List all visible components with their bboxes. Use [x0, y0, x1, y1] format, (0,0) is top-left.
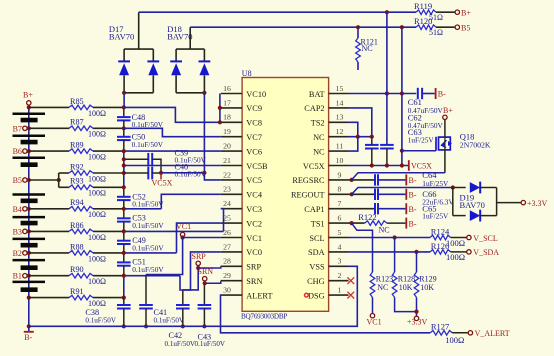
- wire D18 right cathode lead: [203, 49, 205, 61]
- pin 18 VC8 lead: [221, 121, 242, 123]
- junction B1 on battery column: [27, 274, 31, 278]
- svg-text:VC5X: VC5X: [152, 179, 173, 188]
- pin 22 VC5 lead: [221, 179, 242, 181]
- wire SCL row: [349, 237, 431, 239]
- svg-text:1uF/25V: 1uF/25V: [408, 136, 435, 145]
- wire VC1 circle stub: [182, 236, 184, 239]
- wire to R93: [59, 186, 69, 188]
- battery cell 6: [13, 238, 46, 241]
- svg-text:VC0: VC0: [246, 248, 262, 257]
- wire B5 split vertical: [58, 173, 60, 187]
- wire B3 jog to VC3: [221, 209, 224, 232]
- resistor R123: [370, 272, 375, 297]
- junction B5 rail R121: [356, 25, 360, 29]
- junction cap column R93 row: [122, 185, 126, 189]
- svg-text:0.1uF/50V: 0.1uF/50V: [132, 200, 164, 209]
- wire C49 bottom pigtail: [123, 244, 125, 253]
- terminal B4 circle: [23, 207, 27, 211]
- wire C38 bottom pigtail: [123, 309, 125, 327]
- wire R128 bottom jog: [395, 297, 417, 311]
- resistor R122: [365, 221, 387, 226]
- wire VC5X row: [349, 165, 409, 167]
- wire D18 anode join: [176, 92, 204, 94]
- svg-text:4: 4: [338, 242, 342, 251]
- wire SRN circle stub: [204, 281, 206, 283]
- svg-text:TS2: TS2: [311, 119, 325, 128]
- terminal B3 circle: [23, 229, 27, 233]
- svg-text:R122: R122: [358, 212, 376, 222]
- wire R126 to V_SDA: [451, 251, 467, 253]
- junction REGSRC diag: [350, 178, 354, 182]
- terminal SRN circle: [203, 277, 207, 281]
- wire D17 cathode bar top: [124, 48, 153, 50]
- resistor R129: [414, 272, 419, 297]
- svg-text:2: 2: [338, 271, 342, 280]
- wire B5 to split: [29, 179, 59, 181]
- svg-text:5: 5: [338, 228, 342, 237]
- terminal B+ circle top right: [455, 10, 459, 14]
- wire B- rail to VSS pin3: [29, 266, 358, 326]
- wire B3 to R86 row: [29, 230, 69, 232]
- resistor R120: [416, 25, 436, 30]
- junction cap column C50 bottom: [122, 149, 126, 153]
- svg-text:VSS: VSS: [309, 263, 325, 272]
- pin 28 SRP lead: [221, 265, 242, 267]
- pin 1 DSG lead: [329, 294, 349, 296]
- wire R91 output: [93, 297, 124, 299]
- svg-text:V_SCL: V_SCL: [473, 234, 498, 243]
- battery cell 7: [13, 259, 46, 262]
- battery cell 2: [13, 135, 46, 138]
- wire D19 cathode join: [496, 188, 498, 216]
- wire R129 to +3.3V: [416, 297, 418, 316]
- svg-text:0.1uF/50V: 0.1uF/50V: [132, 140, 164, 149]
- wire B1 to R90 row: [29, 275, 69, 277]
- junction VC5 riser: [202, 171, 206, 175]
- capacitor C50: [117, 136, 131, 138]
- svg-text:3: 3: [338, 257, 342, 266]
- wire R121 bottom stub: [357, 62, 359, 70]
- svg-text:REGSRC: REGSRC: [292, 176, 325, 185]
- svg-text:10K: 10K: [420, 283, 434, 292]
- junction C42 on B- rail: [181, 324, 185, 328]
- svg-text:2N7002K: 2N7002K: [460, 141, 491, 150]
- wire ALERT route to R127: [221, 295, 431, 333]
- wire VC1 to pin26: [183, 237, 221, 239]
- svg-text:C42: C42: [169, 331, 183, 340]
- wire R124 to V_SCL: [451, 237, 467, 239]
- battery cell 4: [13, 193, 46, 196]
- capacitor C41: [139, 304, 153, 306]
- junction BAT riser B+: [385, 91, 389, 95]
- svg-text:1uF/25V: 1uF/25V: [422, 179, 449, 188]
- resistor R93: [69, 185, 93, 190]
- wire to R92: [59, 172, 69, 174]
- wire NC pin11 jog: [349, 137, 358, 151]
- svg-text:B+: B+: [23, 91, 33, 100]
- junction pin12 TS2: [356, 135, 360, 139]
- svg-text:0.1uF/50V: 0.1uF/50V: [132, 120, 164, 129]
- svg-text:NC: NC: [313, 147, 325, 156]
- svg-text:+3.3V: +3.3V: [407, 318, 428, 327]
- wire R121 top lead: [357, 27, 359, 38]
- capacitor C63: [365, 144, 379, 146]
- svg-text:CAP2: CAP2: [304, 104, 324, 113]
- terminal VC1 circle upper: [180, 232, 184, 236]
- wire Q18 channel through: [444, 137, 446, 150]
- svg-text:R124: R124: [431, 226, 450, 236]
- wire D19 lower branch down: [452, 188, 454, 216]
- wire R87 output: [93, 127, 124, 129]
- wire R89 net continue: [124, 150, 221, 152]
- wire C40 left: [124, 172, 149, 174]
- junction cap column C48 top: [122, 105, 126, 109]
- pin 29 SRN lead: [221, 280, 242, 282]
- wire B5 top rail: [190, 26, 416, 28]
- svg-text:R120: R120: [414, 16, 432, 26]
- capacitor C42: [176, 304, 190, 306]
- wire D17 right cathode lead: [152, 49, 154, 61]
- wire C53 bottom pigtail: [123, 222, 125, 232]
- capacitor C53: [117, 217, 131, 219]
- net label VC5X right: [408, 160, 410, 171]
- junction VC5X C63: [370, 163, 374, 167]
- wire R88 net continue: [124, 252, 177, 254]
- wire C40 right: [152, 172, 161, 174]
- svg-text:8: 8: [338, 185, 342, 194]
- wire C64 to bracket: [378, 179, 405, 181]
- wire cap column R92-R93: [123, 173, 125, 187]
- pin 17 VC9 lead: [221, 107, 242, 109]
- diode D19 upper half: [470, 182, 480, 193]
- pin 24 VC3 lead: [221, 208, 242, 210]
- wire VC1 down to C41: [146, 238, 183, 275]
- svg-text:B-: B-: [409, 219, 417, 228]
- wire cap column B1 to R91 row: [123, 276, 125, 298]
- svg-text:30: 30: [223, 286, 231, 295]
- svg-text:13: 13: [336, 113, 344, 122]
- junction VC5X node: [159, 171, 163, 175]
- wire SRP to pin28: [198, 266, 221, 268]
- wire VC5 riser from D18: [203, 93, 205, 173]
- svg-text:0.1uF/50V: 0.1uF/50V: [195, 340, 226, 348]
- junction cap column C52/C53: [122, 207, 126, 211]
- diode D18 left half: [170, 60, 182, 62]
- svg-text:10: 10: [336, 156, 344, 165]
- svg-text:21: 21: [223, 156, 231, 165]
- terminal +3.3V circle lower: [414, 316, 418, 320]
- wire C43 top pigtail: [203, 283, 205, 305]
- wire R90 output: [93, 275, 124, 277]
- junction C38 on B- rail: [122, 324, 126, 328]
- svg-text:9: 9: [338, 170, 342, 179]
- wire C52 bottom pigtail: [123, 200, 125, 209]
- power symbol B- row9: [405, 174, 407, 185]
- wire B2 jog to VC2: [177, 223, 221, 253]
- junction B+ / R85 row: [27, 105, 31, 109]
- junction VC5X riser: [400, 163, 404, 167]
- wire R123 to VC1: [372, 297, 374, 313]
- junction SRP: [196, 266, 200, 270]
- svg-text:R126: R126: [431, 241, 449, 251]
- terminal B5 circle: [23, 178, 27, 182]
- wire C41 top pigtail: [145, 275, 147, 306]
- junction B2 on battery column: [27, 251, 31, 255]
- resistor R126: [430, 250, 451, 255]
- wire CAP2 to C63: [349, 108, 372, 137]
- svg-text:BAV70: BAV70: [167, 31, 192, 41]
- junction TS1 diag: [350, 221, 354, 225]
- resistor R89: [69, 149, 93, 154]
- terminal B1 circle: [23, 274, 27, 278]
- wire D18 left anode lead: [175, 75, 177, 93]
- net label VC5X stub: [160, 173, 162, 180]
- wire C53 top pigtail: [123, 209, 125, 219]
- wire C50 bottom pigtail: [123, 140, 125, 151]
- battery cell 3: [13, 156, 46, 159]
- capacitor C64: [374, 174, 376, 185]
- svg-text:100Ω: 100Ω: [445, 335, 464, 345]
- resistor R87: [69, 126, 93, 131]
- pin 25 VC2 lead: [221, 222, 242, 224]
- svg-text:REGOUT: REGOUT: [291, 191, 325, 200]
- svg-text:51Ω: 51Ω: [429, 28, 443, 37]
- svg-text:R93: R93: [70, 177, 84, 186]
- wire D18 stem: [189, 27, 191, 49]
- junction D19 input: [451, 185, 455, 189]
- resistor R119: [416, 10, 436, 15]
- svg-text:SRP: SRP: [246, 263, 261, 272]
- svg-text:7: 7: [338, 199, 342, 208]
- wire TS1 to R123: [352, 223, 373, 272]
- svg-text:100Ω: 100Ω: [88, 130, 106, 139]
- svg-text:1uF/25V: 1uF/25V: [422, 212, 449, 221]
- svg-text:VC1: VC1: [246, 234, 262, 243]
- pin 4 SDA lead: [329, 251, 349, 253]
- svg-text:VC1: VC1: [367, 317, 382, 326]
- junction riser pin17: [218, 106, 222, 110]
- wire R127 to V_ALERT: [452, 332, 468, 334]
- terminal B+ circle at Q18: [443, 115, 447, 119]
- power symbol B- TS1: [405, 218, 407, 229]
- wire D17 left cathode lead: [123, 49, 125, 61]
- terminal B5 circle top right: [455, 25, 459, 29]
- wire REGSRC row: [349, 179, 375, 181]
- svg-text:VC5: VC5: [246, 176, 262, 185]
- capacitor C65: [374, 203, 376, 214]
- junction B3 on battery column: [27, 229, 31, 233]
- svg-text:+3.3V: +3.3V: [527, 199, 548, 208]
- wire D17 anode down to R85 row: [123, 93, 125, 108]
- svg-text:B7: B7: [13, 124, 22, 133]
- svg-text:100Ω: 100Ω: [88, 109, 106, 118]
- svg-text:R119: R119: [414, 1, 432, 11]
- junction VC1: [181, 235, 185, 239]
- terminal V_ALERT circle: [468, 331, 472, 335]
- svg-text:SRP: SRP: [192, 252, 207, 261]
- wire NC pin12 row: [349, 136, 372, 138]
- wire R94 output: [93, 208, 124, 210]
- svg-text:R88: R88: [70, 242, 84, 251]
- svg-text:NC: NC: [313, 133, 325, 142]
- capacitor C48: [117, 116, 131, 118]
- svg-text:VC10: VC10: [246, 90, 266, 99]
- terminal B+ circle: [27, 101, 31, 105]
- wire TS1 row: [349, 222, 365, 224]
- wire C39 left: [124, 158, 149, 160]
- pin 5 SCL lead: [329, 237, 349, 239]
- svg-text:16: 16: [223, 84, 231, 93]
- wire SCL down to R128: [394, 238, 396, 273]
- svg-text:B4: B4: [13, 205, 22, 214]
- pin 19 VC7 lead: [221, 136, 242, 138]
- wire C43 bottom pigtail: [203, 309, 205, 327]
- capacitor C51: [117, 261, 131, 263]
- power symbol B- row7: [405, 203, 407, 214]
- wire R85 output: [93, 106, 124, 108]
- diode D18 right half: [199, 60, 211, 62]
- IC U8 BQ7693003DBP body: [242, 78, 329, 312]
- junction REGOUT diag: [350, 192, 354, 196]
- svg-text:NC: NC: [362, 44, 373, 53]
- junction VC5B: [122, 163, 126, 167]
- wire R120 to B5 terminal: [436, 26, 455, 28]
- svg-text:R92: R92: [70, 162, 84, 171]
- terminal VC1 circle lower: [370, 314, 374, 318]
- svg-text:24: 24: [223, 199, 231, 208]
- svg-text:B-: B-: [24, 333, 32, 342]
- wire R119 to B+ terminal: [436, 11, 455, 13]
- resistor R91: [69, 295, 93, 300]
- resistor R85: [69, 105, 93, 110]
- pin 8 REGOUT lead: [329, 193, 349, 195]
- wire C63 top pigtail: [371, 137, 373, 145]
- svg-text:V_ALERT: V_ALERT: [475, 329, 510, 338]
- pin 3 VSS lead: [329, 265, 349, 267]
- junction B5 on battery column: [27, 178, 31, 182]
- wire B4 jog to VC4: [161, 194, 221, 209]
- battery cell 1: [13, 113, 46, 116]
- junction cap column C38 top: [122, 296, 126, 300]
- wire D17 right anode lead: [152, 75, 154, 93]
- svg-text:23: 23: [223, 185, 231, 194]
- svg-text:R91: R91: [70, 287, 84, 296]
- svg-text:0.1uF/50V: 0.1uF/50V: [132, 243, 164, 252]
- svg-text:BQ7693003DBP: BQ7693003DBP: [241, 313, 287, 321]
- svg-text:VC2: VC2: [246, 219, 262, 228]
- junction SRN: [203, 281, 207, 285]
- svg-text:B3: B3: [13, 227, 22, 236]
- svg-text:B-: B-: [409, 191, 417, 200]
- wire R122 to bracket: [387, 222, 406, 224]
- terminal B- mark: [24, 331, 34, 333]
- wire C61 to B- bracket: [422, 93, 435, 95]
- svg-text:27: 27: [223, 242, 231, 251]
- wire R88 output: [93, 252, 124, 254]
- pin 9 REGSRC lead: [329, 179, 349, 181]
- svg-text:11: 11: [336, 142, 344, 151]
- wire D19 output: [497, 202, 521, 204]
- wire C50 top pigtail: [123, 128, 125, 137]
- pin 11 NC lead: [329, 150, 349, 152]
- junction cap column C53/C49: [122, 229, 126, 233]
- wire R93 output: [93, 186, 124, 188]
- capacitor C52: [117, 196, 131, 198]
- svg-text:100Ω: 100Ω: [88, 189, 106, 198]
- wire R89 output: [93, 150, 124, 152]
- pin 6 TS1 lead: [329, 222, 349, 224]
- capacitor C43: [198, 304, 212, 306]
- wire C42 top pigtail: [182, 290, 184, 305]
- terminal SRP circle: [196, 261, 200, 265]
- capacitor C40: [147, 167, 149, 180]
- pin 10 VC5X lead: [329, 165, 349, 167]
- terminal V_SDA circle: [467, 250, 471, 254]
- wire REGOUT row: [349, 193, 375, 195]
- junction Q18 gate on riser: [400, 149, 404, 153]
- svg-text:B5: B5: [461, 24, 470, 33]
- wire Q18 drain up: [444, 120, 446, 138]
- svg-text:12: 12: [336, 127, 344, 136]
- pin 7 CAP1 lead: [329, 208, 349, 210]
- svg-text:B6: B6: [13, 147, 22, 156]
- svg-text:100Ω: 100Ω: [88, 233, 106, 242]
- capacitor C61: [417, 88, 419, 99]
- capacitor C49: [117, 240, 131, 242]
- wire REGOUT tap to D19: [352, 188, 453, 195]
- svg-text:B-: B-: [409, 176, 417, 185]
- no-connect X on DSG: [347, 292, 354, 299]
- wire C38 top pigtail: [123, 298, 125, 305]
- DSG active-low circle: [305, 293, 309, 297]
- svg-text:B1: B1: [13, 272, 22, 281]
- wire TS2 jog: [349, 122, 358, 136]
- svg-text:6: 6: [338, 214, 342, 223]
- wire SDA down to R129: [416, 252, 418, 272]
- junction battery bottom / R91 row: [27, 296, 31, 300]
- resistor R127: [430, 331, 452, 336]
- svg-text:100Ω: 100Ω: [88, 299, 106, 308]
- wire B6 to R89 row: [29, 150, 69, 152]
- wire VC5X node to riser: [161, 172, 204, 174]
- svg-text:VC3: VC3: [246, 205, 262, 214]
- svg-text:B+: B+: [443, 106, 453, 115]
- junction B5 rail riser: [400, 25, 404, 29]
- pin 14 CAP2 lead: [329, 107, 349, 109]
- wire B+ net jog to VC8: [124, 107, 220, 122]
- wire C52 top pigtail: [123, 187, 125, 197]
- junction battery bottom / B- rail: [27, 324, 31, 328]
- svg-text:VC7: VC7: [246, 133, 262, 142]
- svg-text:22: 22: [223, 170, 231, 179]
- pin 26 VC1 lead: [221, 237, 242, 239]
- svg-text:R94: R94: [70, 198, 84, 207]
- resistor R88: [69, 251, 93, 256]
- resistor R86: [69, 229, 93, 234]
- svg-text:1: 1: [338, 286, 342, 295]
- wire VC5B horizontal: [124, 165, 221, 167]
- wire C48 bottom pigtail: [123, 120, 125, 128]
- svg-text:29: 29: [223, 271, 231, 280]
- wire riser B+ to C62: [386, 12, 388, 145]
- svg-text:VC4: VC4: [246, 191, 263, 200]
- wire C49 top pigtail: [123, 231, 125, 240]
- junction SCL R128: [393, 235, 397, 239]
- junction B4 on battery column: [27, 207, 31, 211]
- resistor R94: [69, 207, 93, 212]
- junction cap column C48/C50: [122, 126, 126, 130]
- svg-text:R89: R89: [70, 141, 84, 150]
